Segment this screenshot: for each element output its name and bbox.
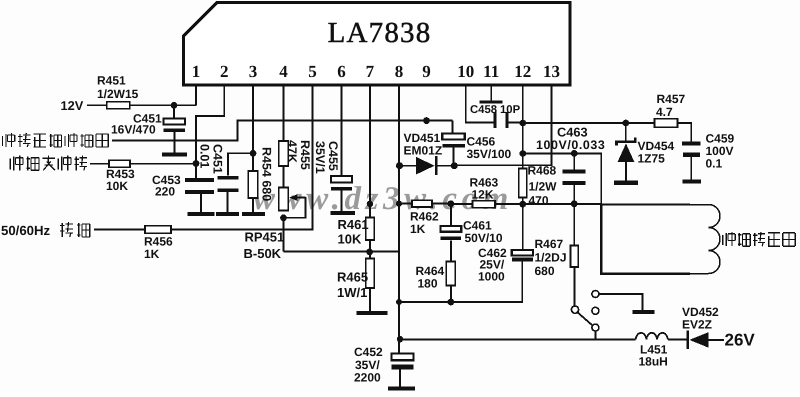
svg-text:47K: 47K	[285, 140, 299, 163]
node R462 junction	[396, 201, 402, 207]
svg-text:1Z75: 1Z75	[638, 152, 666, 166]
wire pin 1 stub	[195, 85, 197, 105]
wire R457 right	[678, 122, 692, 141]
svg-text:0.1: 0.1	[706, 156, 723, 170]
svg-text:R468: R468	[528, 163, 557, 177]
label C453	[152, 173, 181, 199]
svg-text:12V: 12V	[61, 98, 84, 113]
node C461 junction	[448, 200, 455, 207]
svg-text:18uH: 18uH	[639, 355, 668, 369]
RP451 wiper arm	[284, 194, 307, 218]
svg-text:R451: R451	[97, 73, 126, 87]
svg-text:RP451: RP451	[245, 230, 285, 245]
svg-text:EV2Z: EV2Z	[682, 318, 712, 332]
node C463 top	[571, 150, 578, 157]
node bus B2 junction	[396, 299, 402, 305]
wire pin 12 down	[522, 85, 524, 250]
wire pin 2 left	[195, 115, 225, 117]
svg-text:4.7: 4.7	[656, 105, 673, 119]
wire pin 6 down	[341, 85, 343, 176]
wire rail to coil box	[523, 203, 602, 205]
svg-text:1W/1: 1W/1	[337, 285, 367, 300]
wire R461 to R465	[369, 240, 371, 259]
label C451 0.01 vertical	[198, 144, 225, 174]
label VD454	[638, 139, 675, 166]
wire R451 to pin 1	[130, 104, 196, 106]
label 12V	[61, 98, 84, 113]
pin 11 terminal bar	[480, 101, 503, 104]
resistor R467	[571, 246, 579, 268]
wire pin12 to coil top	[523, 153, 601, 205]
wire trigger to R453	[90, 163, 109, 165]
label C461	[463, 218, 503, 245]
svg-text:LA7838: LA7838	[328, 17, 432, 49]
wire C461 stem	[450, 204, 452, 226]
svg-text:470: 470	[529, 193, 549, 207]
wire C461 to R464	[450, 240, 452, 261]
svg-text:1K: 1K	[144, 247, 160, 261]
label R457	[656, 92, 686, 119]
capacitor C458	[494, 112, 509, 128]
capacitor C456	[442, 134, 465, 148]
diode VD452	[686, 331, 724, 350]
node 12V junction	[171, 102, 178, 109]
inductor L451	[636, 333, 668, 340]
wire R462 leads	[399, 203, 451, 205]
resistor R465	[366, 259, 374, 289]
wire R467 to switch	[573, 267, 575, 306]
svg-text:1000: 1000	[478, 269, 505, 283]
label R462	[410, 209, 439, 236]
label R451 value	[97, 73, 139, 101]
wire R464 down	[450, 286, 452, 303]
svg-text:16V/470: 16V/470	[111, 122, 156, 136]
switch arm	[578, 312, 593, 325]
label R463 value	[470, 175, 499, 201]
svg-text:12: 12	[514, 62, 531, 81]
svg-text:1/2DJ: 1/2DJ	[535, 250, 567, 264]
deflection coil box	[601, 204, 720, 273]
svg-text:8: 8	[395, 62, 404, 81]
wire bus B3	[400, 338, 636, 340]
wire C451 to ground	[173, 132, 175, 153]
node VD451 anode	[396, 162, 403, 169]
pin numbers 1-13	[192, 62, 560, 81]
svg-text:R465: R465	[337, 269, 368, 284]
label C462	[478, 246, 507, 284]
node R461 bottom junction	[366, 249, 373, 256]
ground under C459	[682, 179, 701, 183]
node VD454 junction	[622, 120, 629, 127]
switch contact middle	[592, 307, 599, 314]
resistor R455	[279, 141, 288, 166]
svg-text:R457: R457	[657, 92, 686, 106]
svg-text:C458: C458	[470, 104, 497, 116]
label field trigger pulse	[10, 156, 87, 171]
svg-text:2: 2	[220, 62, 229, 81]
potentiometer RP451	[279, 188, 288, 211]
svg-text:9: 9	[422, 62, 431, 81]
svg-text:100V/0.033: 100V/0.033	[536, 138, 605, 152]
svg-text:2200: 2200	[354, 371, 381, 385]
wire R467 top	[573, 204, 575, 246]
wire C456 to node	[453, 147, 455, 163]
svg-text:10K: 10K	[106, 179, 128, 193]
node R464 bottom	[448, 299, 455, 306]
resistor R462	[412, 200, 432, 207]
label R467	[535, 237, 567, 278]
label 50/60Hz switch	[1, 222, 90, 238]
svg-text:1K: 1K	[410, 222, 426, 236]
svg-text:10K: 10K	[338, 231, 362, 246]
node on pin 7	[367, 201, 373, 207]
node R453 junction	[193, 160, 200, 167]
ground under R454	[242, 212, 265, 216]
node C452 junction	[397, 336, 403, 342]
wire pin 4 down	[283, 85, 285, 141]
ground under C452	[388, 386, 415, 390]
svg-text:10: 10	[457, 62, 474, 81]
ground under R465	[357, 311, 388, 315]
svg-text:10P: 10P	[500, 104, 521, 116]
svg-text:1/2W15: 1/2W15	[97, 87, 139, 101]
svg-text:4: 4	[279, 62, 288, 81]
switch contact top	[592, 291, 599, 298]
wire R465 to ground	[369, 288, 371, 311]
wire C455 to ground	[341, 191, 343, 212]
label L451	[639, 342, 668, 368]
ground at switch	[632, 310, 654, 314]
svg-text:6: 6	[337, 62, 346, 81]
switch common contact	[571, 306, 578, 313]
wire R454 to ground	[252, 198, 254, 212]
svg-text:35V/1: 35V/1	[313, 141, 327, 174]
wire pin 2 down	[223, 85, 225, 116]
wire R463 leads	[451, 203, 523, 205]
wire 50-60Hz line	[171, 229, 313, 231]
svg-text:50V/10: 50V/10	[465, 231, 503, 245]
wire node to pin 13	[454, 164, 551, 166]
node pin12 mid	[519, 150, 526, 157]
label C463	[536, 125, 605, 153]
wire pin 11 stub	[490, 85, 492, 101]
svg-text:3: 3	[249, 62, 258, 81]
label C455 vertical	[313, 141, 340, 174]
node pin12 rail	[519, 201, 526, 208]
svg-text:12K: 12K	[472, 188, 494, 202]
capacitor C461	[441, 226, 462, 240]
ground under cap 0.01	[216, 212, 239, 216]
wire pin 3 down	[252, 85, 254, 171]
wire C453 to ground	[200, 194, 202, 212]
svg-text:1/2W: 1/2W	[529, 179, 558, 193]
wire top contact to ground	[599, 293, 643, 310]
label R468	[528, 163, 558, 207]
resistor R468	[519, 169, 527, 198]
wire C459 to ground	[690, 157, 692, 180]
node pin 3 junction	[250, 150, 257, 157]
wire L451 to VD452	[668, 338, 687, 340]
IC label LA7838	[328, 17, 432, 49]
svg-text:180: 180	[418, 277, 438, 291]
resistor R461	[366, 218, 374, 241]
svg-text:26V: 26V	[725, 331, 756, 350]
wire top bus	[523, 122, 655, 124]
wire to C456	[451, 121, 453, 134]
wire 12V to R451	[87, 104, 107, 106]
switch contact bottom	[592, 324, 599, 331]
node pin 9 junction	[423, 117, 430, 124]
label C459	[706, 131, 735, 170]
capacitor C463	[563, 153, 586, 204]
label C452	[354, 345, 383, 385]
ground under C455	[330, 211, 355, 215]
capacitor C459	[682, 141, 701, 156]
ground under C451	[162, 153, 187, 157]
svg-text:5: 5	[308, 62, 317, 81]
node C456 bottom	[451, 162, 458, 169]
wire R456 to label	[94, 229, 145, 231]
label deflection coil	[723, 232, 795, 246]
diode VD451	[403, 156, 451, 175]
label C458 10P	[470, 104, 521, 116]
resistor R451	[107, 102, 130, 109]
wire C452 to ground	[399, 370, 401, 387]
wire pin 13 down	[551, 85, 553, 166]
label R464	[416, 264, 445, 291]
capacitor C453	[185, 178, 214, 194]
resistor R464	[446, 262, 455, 286]
label frame retrace pulse output	[3, 133, 109, 147]
svg-text:1: 1	[192, 62, 201, 81]
capacitor C451 0.01	[218, 176, 239, 192]
ground under C453	[188, 212, 215, 216]
label VD452	[682, 305, 719, 332]
label R454 vertical	[260, 147, 274, 201]
svg-text:220: 220	[155, 184, 175, 198]
node C463 bottom	[571, 200, 578, 207]
resistor R456	[145, 226, 171, 233]
capacitor C455	[331, 176, 352, 190]
label VD451	[404, 131, 443, 158]
capacitor C462	[512, 250, 533, 261]
label R456	[144, 234, 173, 261]
resistor R454	[248, 171, 257, 198]
svg-text:13: 13	[543, 62, 560, 81]
wire RP451 down to bus	[284, 218, 400, 252]
wire pin 5 down	[312, 85, 314, 230]
label 26V	[725, 331, 756, 350]
node pin12 bus	[519, 120, 526, 127]
wire bus B2	[399, 261, 522, 303]
wire bottom contact stub	[594, 331, 596, 340]
label C456	[467, 134, 512, 161]
label R461	[338, 217, 369, 246]
wire VD454 stem	[625, 123, 627, 141]
capacitor C452	[392, 354, 414, 370]
wire cap 0.01 to pin 3	[227, 153, 253, 175]
svg-text:R467: R467	[535, 237, 564, 251]
resistor R457	[655, 119, 678, 127]
wire C458 right lead	[508, 122, 523, 124]
svg-text:EM01Z: EM01Z	[404, 143, 443, 157]
wire down to C453	[195, 115, 197, 178]
svg-text:R461: R461	[338, 217, 369, 232]
label R453 value	[106, 167, 135, 193]
node RP451 bottom	[280, 214, 287, 221]
watermark www.dz3w.com	[253, 181, 513, 217]
resistor R453	[109, 160, 130, 167]
svg-text:680: 680	[535, 264, 555, 278]
label R455 vertical	[285, 140, 312, 170]
label C451	[111, 111, 162, 136]
wire pin 7 down	[369, 85, 371, 218]
svg-text:7: 7	[366, 62, 375, 81]
svg-text:B-50K: B-50K	[244, 246, 282, 261]
zener diode VD454	[617, 138, 636, 181]
op-amp U1 LA7838 IC body	[184, 3, 571, 86]
wire junction to C451	[173, 105, 175, 118]
wire R455 to RP451	[283, 166, 285, 188]
svg-text:0.01: 0.01	[198, 144, 212, 168]
svg-text:35V/100: 35V/100	[467, 147, 512, 161]
wire cap 0.01 to ground	[227, 192, 229, 212]
svg-text:R454 680: R454 680	[260, 147, 274, 201]
ground under VD454	[614, 181, 638, 185]
wire pin 10 down	[466, 85, 494, 123]
capacitor C451	[164, 119, 186, 132]
wire retrace output	[112, 120, 452, 142]
resistor R463	[473, 201, 496, 208]
label RP451	[244, 230, 285, 262]
svg-text:11: 11	[483, 62, 499, 81]
wire R453 to pin2 line	[130, 163, 196, 165]
label R465	[337, 269, 368, 300]
svg-text:50/60Hz: 50/60Hz	[1, 223, 51, 238]
wire pin 8 down	[398, 85, 400, 354]
